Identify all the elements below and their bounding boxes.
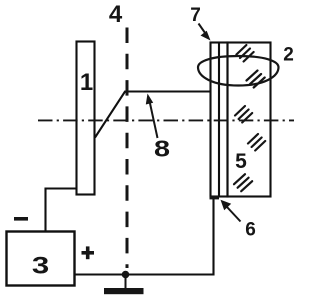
svg-text:6: 6 <box>245 220 256 241</box>
svg-text:5: 5 <box>235 150 247 173</box>
svg-text:1: 1 <box>80 69 93 96</box>
svg-text:3: 3 <box>32 252 49 279</box>
svg-text:8: 8 <box>154 135 170 162</box>
svg-text:2: 2 <box>283 45 294 66</box>
svg-text:4: 4 <box>109 1 123 28</box>
svg-text:7: 7 <box>190 5 201 26</box>
